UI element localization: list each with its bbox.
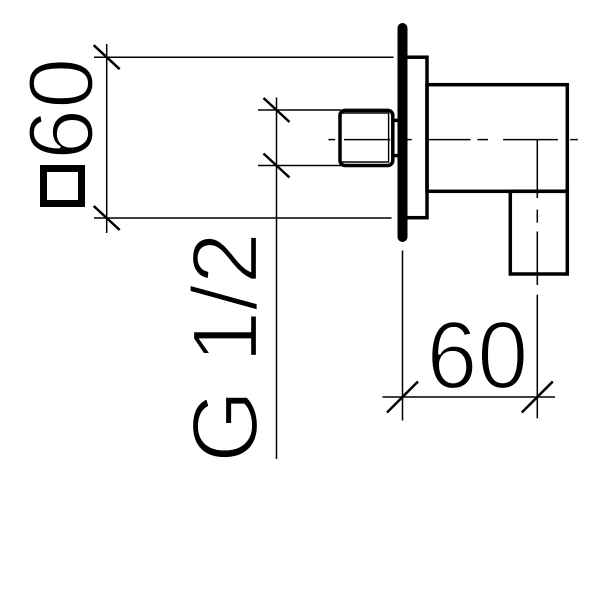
nipple-plate connector bottom (393, 154, 399, 158)
svg-text:60: 60 (427, 302, 528, 409)
wall plate (escutcheon edge view) (398, 28, 408, 237)
dimension sq60: square symbol (44, 169, 82, 204)
thread root line bottom (342, 161, 389, 163)
dimension 60 bottom: tick right (522, 382, 553, 413)
dimension G1/2: extension line top (258, 109, 341, 111)
horizontal centerline (dash-dot) (328, 139, 577, 141)
dimension G1/2: extension line bottom (258, 165, 341, 167)
dimension G1/2: tick bottom (264, 154, 290, 178)
threaded nipple outer (340, 110, 393, 165)
thread root line top (342, 112, 389, 114)
outlet centerline (dash-dot, extends to dimension) (536, 140, 538, 419)
dimension 60 bottom: extension line left (402, 251, 404, 421)
svg-text:60: 60 (11, 58, 113, 160)
body (horizontal housing) (427, 85, 567, 192)
outlet (downward spout) (510, 191, 567, 274)
dimension G1/2: tick top (264, 98, 290, 122)
dimension 60 bottom: tick left (387, 382, 418, 413)
dimension sq60: extension line bottom (94, 217, 392, 219)
dimension 60 bottom: dimension line (383, 396, 556, 398)
dimension sq60: tick top (94, 45, 120, 69)
dimension sq60: dimension line (106, 44, 108, 233)
flange behind body (403, 57, 427, 218)
nipple-plate connector top (393, 119, 399, 123)
thread end line (388, 112, 390, 162)
dimension sq60: tick bottom (94, 206, 120, 230)
svg-text:G 1/2: G 1/2 (173, 232, 277, 463)
dimension sq60: extension line top (94, 56, 394, 58)
dimension G1/2: dimension line (276, 98, 278, 460)
